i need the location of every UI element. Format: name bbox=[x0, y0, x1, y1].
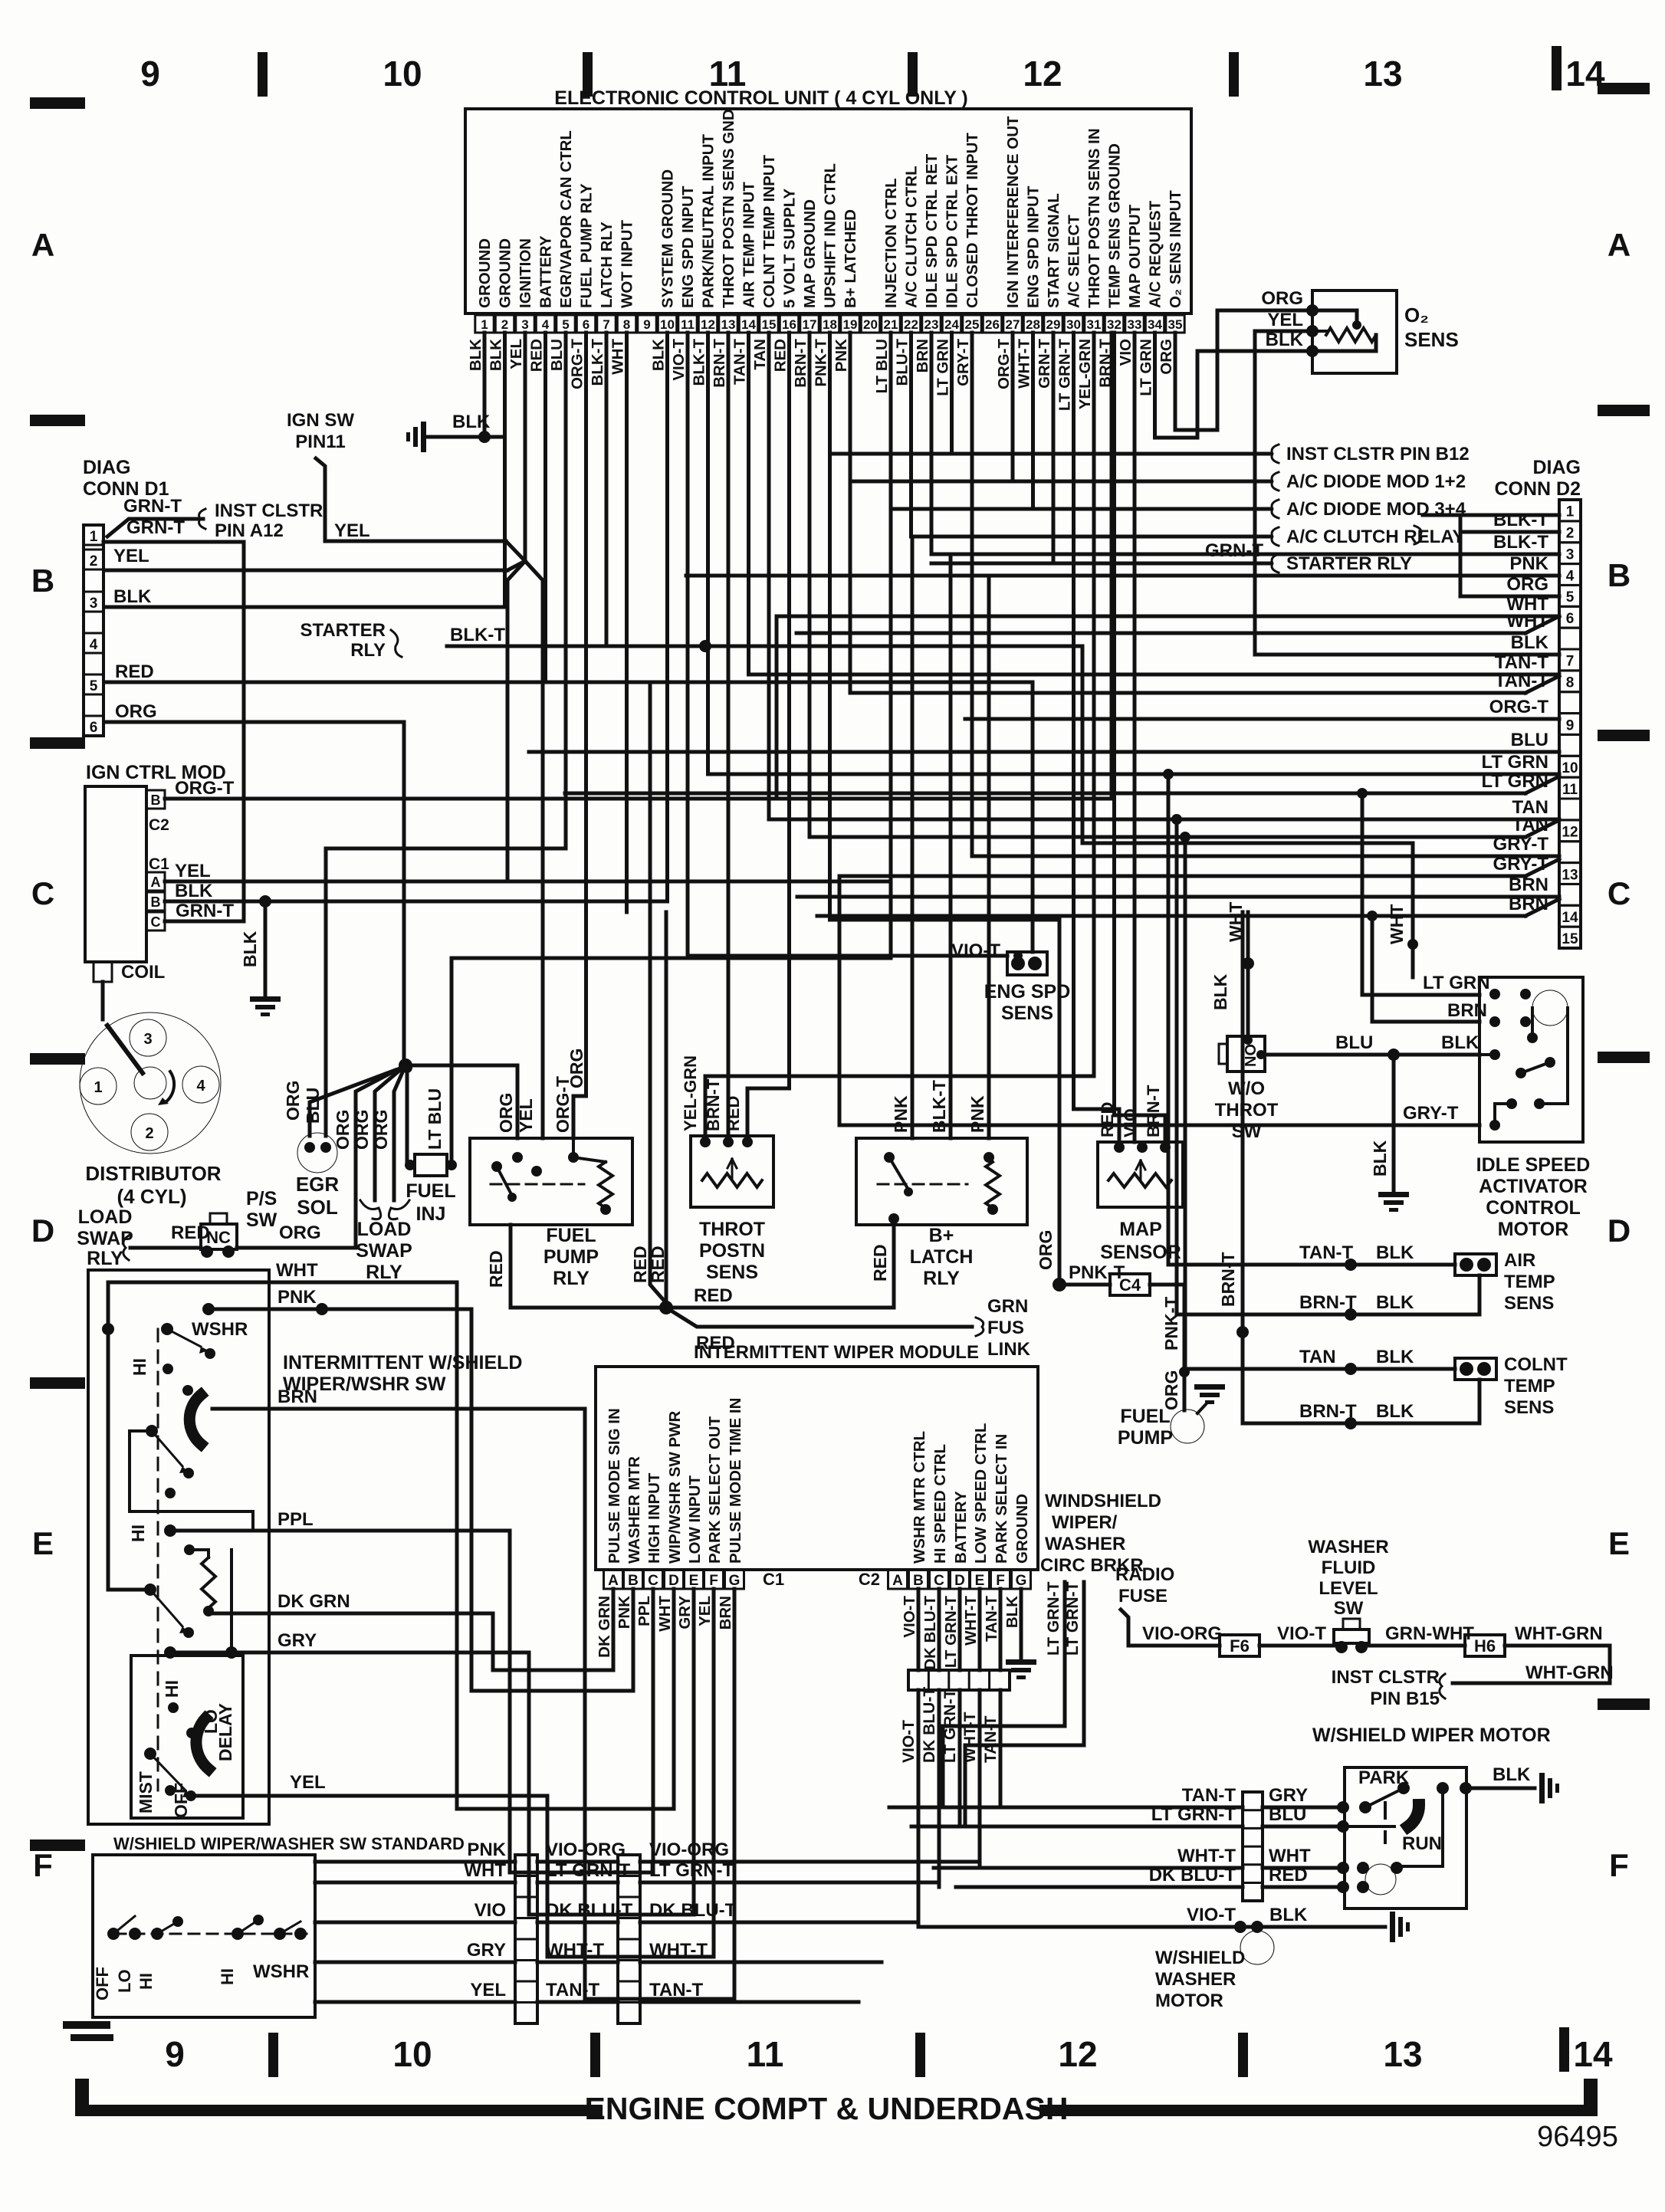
svg-text:27: 27 bbox=[1006, 317, 1020, 332]
svg-text:C: C bbox=[648, 1573, 658, 1589]
svg-text:STARTER RLY: STARTER RLY bbox=[1286, 553, 1412, 574]
svg-text:(4 CYL): (4 CYL) bbox=[117, 1185, 187, 1208]
svg-text:PIN B15: PIN B15 bbox=[1370, 1689, 1440, 1709]
svg-text:MOTOR: MOTOR bbox=[1155, 1990, 1223, 2011]
svg-text:BLK: BLK bbox=[1210, 973, 1230, 1010]
svg-text:LT GRN: LT GRN bbox=[1481, 752, 1548, 773]
svg-text:SENS: SENS bbox=[1504, 1397, 1554, 1418]
svg-text:31: 31 bbox=[1087, 317, 1102, 332]
svg-text:2: 2 bbox=[501, 317, 508, 332]
svg-text:4: 4 bbox=[542, 317, 550, 332]
svg-text:INST CLSTR PIN B12: INST CLSTR PIN B12 bbox=[1286, 444, 1470, 464]
svg-text:BLK: BLK bbox=[488, 339, 505, 371]
svg-text:IGNITION: IGNITION bbox=[517, 238, 534, 308]
svg-text:FUSE: FUSE bbox=[1118, 1586, 1167, 1606]
svg-text:O₂ SENS INPUT: O₂ SENS INPUT bbox=[1167, 190, 1184, 308]
svg-text:WHT: WHT bbox=[276, 1260, 318, 1281]
svg-text:LT BLU: LT BLU bbox=[425, 1088, 445, 1150]
svg-text:BLK: BLK bbox=[1376, 1292, 1414, 1313]
svg-text:WASHER MTR: WASHER MTR bbox=[626, 1456, 643, 1564]
svg-text:TAN-T: TAN-T bbox=[546, 1980, 600, 2000]
svg-text:3: 3 bbox=[1566, 546, 1575, 563]
svg-text:ELECTRONIC CONTROL UNIT (: ELECTRONIC CONTROL UNIT ( 4 CYL ONLY ) bbox=[554, 87, 967, 109]
svg-text:16: 16 bbox=[782, 317, 796, 332]
svg-text:ORG: ORG bbox=[1036, 1230, 1056, 1270]
svg-text:WHT: WHT bbox=[1387, 904, 1407, 944]
svg-text:TAN: TAN bbox=[751, 339, 769, 370]
svg-text:W/SHIELD WIPER MOTOR: W/SHIELD WIPER MOTOR bbox=[1312, 1725, 1551, 1746]
svg-text:TAN-T: TAN-T bbox=[731, 339, 749, 385]
svg-text:BRN: BRN bbox=[1509, 894, 1548, 914]
svg-text:33: 33 bbox=[1128, 317, 1142, 332]
svg-text:VIO: VIO bbox=[1117, 339, 1135, 366]
svg-text:YEL-GRN: YEL-GRN bbox=[1076, 339, 1094, 409]
svg-text:PPL: PPL bbox=[635, 1596, 653, 1626]
svg-text:PUMP: PUMP bbox=[544, 1246, 599, 1268]
svg-text:WHT-GRN: WHT-GRN bbox=[1525, 1662, 1614, 1683]
svg-text:BLK: BLK bbox=[113, 586, 152, 607]
svg-text:5: 5 bbox=[90, 678, 98, 694]
svg-text:RLY: RLY bbox=[553, 1268, 589, 1289]
svg-text:IGN INTERFERENCE OUT: IGN INTERFERENCE OUT bbox=[1004, 116, 1022, 308]
svg-text:PNK: PNK bbox=[891, 1095, 911, 1133]
svg-text:WHT-T: WHT-T bbox=[962, 1596, 980, 1646]
svg-text:19: 19 bbox=[843, 317, 858, 332]
svg-text:ORG: ORG bbox=[115, 701, 157, 722]
svg-text:WASHER: WASHER bbox=[1308, 1537, 1388, 1557]
svg-text:WHT: WHT bbox=[464, 1860, 506, 1881]
svg-text:BRN-T: BRN-T bbox=[1218, 1252, 1238, 1307]
svg-text:VIO-T: VIO-T bbox=[951, 940, 1000, 961]
svg-text:23: 23 bbox=[924, 317, 939, 332]
svg-text:28: 28 bbox=[1026, 317, 1040, 332]
svg-text:PIN A12: PIN A12 bbox=[215, 520, 284, 541]
svg-text:E: E bbox=[975, 1573, 985, 1589]
svg-text:GRN-T: GRN-T bbox=[123, 496, 182, 517]
svg-text:PPL: PPL bbox=[277, 1509, 314, 1530]
svg-text:ORG-T: ORG-T bbox=[569, 339, 586, 390]
svg-text:29: 29 bbox=[1046, 317, 1061, 332]
svg-text:PNK: PNK bbox=[967, 1095, 987, 1133]
svg-text:RLY: RLY bbox=[87, 1248, 123, 1269]
svg-text:IGN SW: IGN SW bbox=[287, 410, 354, 431]
svg-text:SW: SW bbox=[1334, 1598, 1364, 1619]
svg-text:ORG: ORG bbox=[1161, 1370, 1181, 1410]
svg-text:BLK: BLK bbox=[650, 339, 668, 371]
svg-text:EGR/VAPOR CAN CTRL: EGR/VAPOR CAN CTRL bbox=[557, 130, 575, 308]
svg-text:DISTRIBUTOR: DISTRIBUTOR bbox=[85, 1162, 221, 1185]
svg-text:THROT POSTN SENS GND: THROT POSTN SENS GND bbox=[720, 109, 737, 308]
svg-text:YEL: YEL bbox=[290, 1772, 326, 1793]
svg-text:C: C bbox=[31, 875, 54, 911]
svg-text:RLY: RLY bbox=[350, 640, 386, 661]
svg-text:96495: 96495 bbox=[1537, 2121, 1618, 2153]
svg-text:MAP GROUND: MAP GROUND bbox=[801, 199, 819, 308]
svg-text:LOW INPUT: LOW INPUT bbox=[686, 1475, 704, 1564]
svg-text:3: 3 bbox=[143, 1031, 152, 1048]
svg-text:WHT: WHT bbox=[609, 339, 627, 375]
svg-text:A/C SELECT: A/C SELECT bbox=[1066, 215, 1083, 308]
svg-text:IDLE SPEED: IDLE SPEED bbox=[1476, 1154, 1591, 1176]
svg-text:BRN: BRN bbox=[717, 1596, 734, 1629]
svg-text:17: 17 bbox=[803, 317, 817, 332]
svg-text:B: B bbox=[31, 563, 54, 599]
svg-text:21: 21 bbox=[884, 317, 898, 332]
svg-text:DIAG: DIAG bbox=[83, 457, 131, 478]
svg-text:2: 2 bbox=[145, 1125, 153, 1142]
svg-text:MAP: MAP bbox=[1119, 1219, 1162, 1240]
svg-text:GRN-T: GRN-T bbox=[1205, 540, 1263, 561]
svg-text:SENS: SENS bbox=[706, 1262, 758, 1283]
svg-text:GRN-T: GRN-T bbox=[176, 901, 234, 921]
svg-text:VIO-ORG: VIO-ORG bbox=[546, 1840, 626, 1860]
svg-text:STARTER: STARTER bbox=[300, 620, 386, 641]
svg-text:TAN: TAN bbox=[1299, 1347, 1336, 1367]
svg-text:VIO-T: VIO-T bbox=[1187, 1905, 1236, 1925]
svg-text:F: F bbox=[1609, 1847, 1629, 1883]
svg-text:BATTERY: BATTERY bbox=[952, 1491, 970, 1564]
svg-text:IDLE SPD CTRL RET: IDLE SPD CTRL RET bbox=[923, 153, 941, 308]
svg-text:BRN: BRN bbox=[277, 1387, 317, 1407]
svg-text:UPSHIFT IND CTRL: UPSHIFT IND CTRL bbox=[822, 163, 839, 308]
svg-text:TAN-T: TAN-T bbox=[982, 1715, 1000, 1763]
svg-text:4: 4 bbox=[196, 1078, 205, 1095]
svg-text:DK BLU-T: DK BLU-T bbox=[649, 1900, 737, 1921]
svg-text:11: 11 bbox=[681, 317, 695, 332]
svg-text:GRY-T: GRY-T bbox=[954, 339, 972, 386]
svg-text:1: 1 bbox=[1566, 504, 1575, 520]
svg-text:FLUID: FLUID bbox=[1322, 1557, 1376, 1578]
svg-text:D: D bbox=[954, 1573, 965, 1589]
svg-text:BLK: BLK bbox=[467, 339, 484, 371]
svg-text:RED: RED bbox=[772, 339, 790, 372]
svg-text:HI: HI bbox=[130, 1358, 149, 1376]
svg-text:WINDSHIELD: WINDSHIELD bbox=[1045, 1491, 1161, 1511]
svg-text:RED: RED bbox=[694, 1285, 733, 1306]
svg-text:CLOSED THROT INPUT: CLOSED THROT INPUT bbox=[964, 133, 981, 308]
svg-text:A: A bbox=[608, 1573, 619, 1589]
svg-text:RLY: RLY bbox=[366, 1262, 402, 1283]
svg-text:ENG SPD INPUT: ENG SPD INPUT bbox=[1025, 185, 1043, 308]
svg-text:FUEL: FUEL bbox=[1120, 1406, 1170, 1427]
svg-text:WSHR MTR CTRL: WSHR MTR CTRL bbox=[911, 1431, 928, 1564]
svg-text:PNK-T: PNK-T bbox=[813, 339, 830, 387]
svg-text:ENGINE COMPT & UNDERDASH: ENGINE COMPT & UNDERDASH bbox=[585, 2091, 1069, 2126]
svg-text:WHT-GRN: WHT-GRN bbox=[1515, 1623, 1603, 1644]
svg-text:ORG: ORG bbox=[1158, 339, 1175, 375]
svg-text:PUMP: PUMP bbox=[1118, 1427, 1173, 1449]
svg-text:SENS: SENS bbox=[1001, 1003, 1053, 1024]
svg-text:WIP/WSHR SW PWR: WIP/WSHR SW PWR bbox=[666, 1411, 684, 1564]
svg-text:ENG SPD: ENG SPD bbox=[984, 981, 1071, 1003]
svg-text:GRY-T: GRY-T bbox=[1493, 854, 1549, 875]
svg-text:VIO-ORG: VIO-ORG bbox=[649, 1840, 729, 1860]
svg-text:THROT POSTN SENS IN: THROT POSTN SENS IN bbox=[1085, 128, 1103, 308]
svg-text:ORG: ORG bbox=[279, 1223, 321, 1243]
svg-text:F: F bbox=[996, 1573, 1005, 1589]
svg-text:WSHR: WSHR bbox=[192, 1319, 248, 1340]
svg-text:LOW SPEED CTRL: LOW SPEED CTRL bbox=[972, 1423, 990, 1564]
svg-text:13: 13 bbox=[1383, 2034, 1422, 2074]
svg-text:30: 30 bbox=[1066, 317, 1081, 332]
svg-text:YEL: YEL bbox=[516, 1098, 536, 1133]
svg-text:ACTIVATOR: ACTIVATOR bbox=[1479, 1176, 1588, 1197]
svg-text:10: 10 bbox=[383, 54, 422, 94]
svg-text:B: B bbox=[1608, 557, 1631, 593]
svg-text:B: B bbox=[628, 1573, 639, 1589]
svg-text:ORG: ORG bbox=[1506, 574, 1548, 595]
svg-text:7: 7 bbox=[603, 317, 609, 332]
svg-text:E: E bbox=[32, 1525, 54, 1561]
svg-text:ORG-T: ORG-T bbox=[1489, 697, 1549, 717]
svg-text:A/C CLUTCH CTRL: A/C CLUTCH CTRL bbox=[903, 166, 921, 308]
svg-text:VIO-T: VIO-T bbox=[900, 1720, 918, 1763]
svg-text:PNK: PNK bbox=[832, 339, 850, 372]
svg-text:VIO-T: VIO-T bbox=[901, 1596, 918, 1638]
svg-text:COLNT TEMP INPUT: COLNT TEMP INPUT bbox=[760, 154, 778, 308]
svg-text:W/SHIELD: W/SHIELD bbox=[1155, 1948, 1245, 1968]
svg-text:20: 20 bbox=[863, 317, 878, 332]
svg-text:PULSE MODE SIG IN: PULSE MODE SIG IN bbox=[606, 1408, 623, 1564]
svg-text:FUEL: FUEL bbox=[546, 1225, 596, 1246]
svg-text:11: 11 bbox=[1562, 782, 1578, 798]
svg-text:SOL: SOL bbox=[297, 1196, 338, 1219]
svg-text:A: A bbox=[1608, 227, 1631, 263]
svg-text:1: 1 bbox=[90, 529, 98, 545]
svg-text:HI SPEED CTRL: HI SPEED CTRL bbox=[931, 1444, 949, 1564]
svg-text:HI: HI bbox=[136, 1973, 156, 1990]
svg-text:GRN-T: GRN-T bbox=[126, 517, 185, 538]
svg-text:RADIO: RADIO bbox=[1115, 1564, 1174, 1585]
svg-text:DK GRN: DK GRN bbox=[277, 1591, 350, 1612]
svg-text:VIO-T: VIO-T bbox=[1277, 1623, 1326, 1644]
svg-text:SENS: SENS bbox=[1504, 1293, 1554, 1314]
svg-text:C1: C1 bbox=[763, 1570, 784, 1589]
svg-text:YEL: YEL bbox=[1267, 310, 1303, 330]
svg-text:LEVEL: LEVEL bbox=[1319, 1578, 1378, 1599]
svg-text:SWAP: SWAP bbox=[356, 1240, 412, 1262]
svg-text:RED: RED bbox=[115, 661, 154, 682]
svg-text:5: 5 bbox=[562, 317, 569, 332]
svg-text:LT GRN: LT GRN bbox=[1481, 771, 1548, 792]
svg-text:ENG SPD INPUT: ENG SPD INPUT bbox=[679, 185, 697, 308]
svg-text:HI: HI bbox=[162, 1680, 182, 1698]
svg-text:B: B bbox=[151, 894, 161, 910]
svg-text:25: 25 bbox=[965, 317, 980, 332]
svg-text:C: C bbox=[934, 1573, 944, 1589]
svg-text:WSHR: WSHR bbox=[253, 1961, 309, 1982]
svg-text:LT GRN-T: LT GRN-T bbox=[942, 1596, 960, 1669]
svg-text:BATTERY: BATTERY bbox=[537, 235, 555, 308]
svg-text:BLK-T: BLK-T bbox=[1493, 532, 1548, 553]
svg-text:TEMP: TEMP bbox=[1504, 1272, 1555, 1292]
svg-text:6: 6 bbox=[1566, 611, 1575, 627]
svg-text:BLK-T: BLK-T bbox=[1493, 510, 1548, 530]
svg-text:WHT: WHT bbox=[1506, 611, 1548, 632]
svg-text:26: 26 bbox=[985, 317, 1000, 332]
svg-text:BLK: BLK bbox=[175, 881, 213, 901]
svg-text:ORG: ORG bbox=[1261, 288, 1303, 309]
svg-text:D: D bbox=[31, 1213, 54, 1249]
svg-text:C1: C1 bbox=[149, 855, 169, 873]
svg-text:LT GRN-T: LT GRN-T bbox=[1064, 1581, 1082, 1656]
svg-text:YEL: YEL bbox=[507, 339, 525, 369]
svg-text:A/C CLUTCH RELAY: A/C CLUTCH RELAY bbox=[1286, 527, 1464, 547]
svg-text:22: 22 bbox=[904, 317, 918, 332]
svg-text:12: 12 bbox=[1562, 825, 1578, 841]
svg-text:RED: RED bbox=[870, 1244, 890, 1282]
svg-text:LT GRN: LT GRN bbox=[934, 339, 952, 396]
svg-text:GRN-T: GRN-T bbox=[1036, 339, 1053, 389]
svg-text:BLK: BLK bbox=[1370, 1140, 1390, 1177]
svg-text:MAP OUTPUT: MAP OUTPUT bbox=[1126, 204, 1144, 308]
svg-text:BLK: BLK bbox=[452, 412, 491, 432]
svg-text:WHT-T: WHT-T bbox=[1016, 339, 1033, 389]
svg-text:DELAY: DELAY bbox=[215, 1703, 235, 1761]
svg-text:WASHER: WASHER bbox=[1155, 1969, 1236, 1990]
svg-text:9: 9 bbox=[643, 317, 650, 332]
svg-text:CONN D2: CONN D2 bbox=[1494, 478, 1581, 500]
svg-text:BLU: BLU bbox=[1269, 1804, 1306, 1825]
svg-text:INTERMITTENT W/SHIELD: INTERMITTENT W/SHIELD bbox=[283, 1352, 522, 1373]
svg-text:10: 10 bbox=[1562, 760, 1578, 776]
svg-text:ORG: ORG bbox=[371, 1110, 391, 1150]
svg-text:F: F bbox=[33, 1847, 53, 1883]
svg-text:TAN-T: TAN-T bbox=[983, 1596, 1000, 1642]
svg-text:BLK-T: BLK-T bbox=[450, 625, 505, 645]
svg-text:TEMP SENS GROUND: TEMP SENS GROUND bbox=[1106, 143, 1124, 308]
svg-text:ORG-T: ORG-T bbox=[553, 1076, 573, 1133]
svg-text:PNK: PNK bbox=[467, 1840, 506, 1860]
svg-text:18: 18 bbox=[823, 317, 837, 332]
svg-text:HIGH INPUT: HIGH INPUT bbox=[645, 1472, 663, 1564]
svg-text:INTERMITTENT WIPER MODULE: INTERMITTENT WIPER MODULE bbox=[694, 1342, 979, 1363]
svg-text:RED: RED bbox=[1098, 1102, 1117, 1137]
svg-text:G: G bbox=[1016, 1573, 1027, 1589]
svg-text:12: 12 bbox=[1058, 2034, 1097, 2074]
svg-text:BLU: BLU bbox=[303, 1088, 323, 1124]
svg-text:INJ: INJ bbox=[416, 1203, 446, 1225]
svg-text:1: 1 bbox=[94, 1079, 102, 1096]
svg-text:START SIGNAL: START SIGNAL bbox=[1045, 193, 1062, 308]
svg-text:15: 15 bbox=[762, 317, 777, 332]
svg-text:1: 1 bbox=[481, 317, 488, 332]
svg-text:O₂: O₂ bbox=[1404, 304, 1429, 327]
svg-text:BLK: BLK bbox=[1511, 632, 1549, 653]
svg-text:C: C bbox=[1608, 875, 1631, 911]
svg-text:WHT-T: WHT-T bbox=[546, 1940, 604, 1961]
svg-text:BRN: BRN bbox=[1509, 875, 1548, 895]
svg-text:12: 12 bbox=[1023, 54, 1062, 94]
svg-text:MIST: MIST bbox=[136, 1771, 156, 1813]
svg-text:YEL: YEL bbox=[696, 1596, 714, 1626]
svg-text:PARK SELECT OUT: PARK SELECT OUT bbox=[706, 1416, 724, 1564]
svg-text:5: 5 bbox=[1566, 589, 1575, 606]
svg-text:OFF: OFF bbox=[171, 1783, 191, 1818]
svg-text:PIN11: PIN11 bbox=[295, 432, 345, 452]
svg-text:6: 6 bbox=[90, 720, 98, 736]
svg-text:VIO-T: VIO-T bbox=[670, 339, 688, 381]
svg-text:34: 34 bbox=[1148, 317, 1162, 332]
svg-text:LT GRN-T: LT GRN-T bbox=[1045, 1581, 1062, 1656]
svg-text:WASHER: WASHER bbox=[1045, 1534, 1125, 1554]
svg-text:LATCH: LATCH bbox=[910, 1246, 974, 1268]
svg-text:GRN: GRN bbox=[987, 1296, 1028, 1317]
svg-text:PARK/NEUTRAL INPUT: PARK/NEUTRAL INPUT bbox=[700, 134, 718, 308]
svg-text:12: 12 bbox=[701, 317, 715, 332]
svg-text:11: 11 bbox=[747, 2034, 784, 2074]
svg-text:LATCH RLY: LATCH RLY bbox=[598, 222, 616, 308]
svg-text:PARK SELECT IN: PARK SELECT IN bbox=[993, 1434, 1010, 1564]
svg-text:DIAG: DIAG bbox=[1533, 457, 1581, 478]
svg-text:IDLE SPD CTRL EXT: IDLE SPD CTRL EXT bbox=[944, 154, 961, 308]
svg-text:ORG: ORG bbox=[333, 1110, 353, 1150]
svg-text:ORG: ORG bbox=[496, 1093, 516, 1133]
svg-text:WHT-T: WHT-T bbox=[1177, 1846, 1236, 1866]
svg-text:BLU: BLU bbox=[548, 339, 566, 371]
svg-text:PNK: PNK bbox=[277, 1287, 317, 1308]
svg-text:YEL: YEL bbox=[113, 546, 149, 566]
svg-text:VIO: VIO bbox=[475, 1900, 506, 1921]
svg-text:BLK: BLK bbox=[1441, 1032, 1479, 1053]
svg-text:HI: HI bbox=[128, 1524, 148, 1542]
svg-text:WIPER/: WIPER/ bbox=[1052, 1512, 1118, 1533]
svg-text:BRN-T: BRN-T bbox=[711, 339, 728, 388]
svg-text:6: 6 bbox=[583, 317, 589, 332]
svg-text:15: 15 bbox=[1562, 931, 1578, 947]
svg-text:TAN: TAN bbox=[1512, 815, 1548, 835]
svg-text:FUEL PUMP RLY: FUEL PUMP RLY bbox=[578, 183, 596, 308]
svg-text:INST CLSTR: INST CLSTR bbox=[215, 500, 323, 521]
svg-text:BLK: BLK bbox=[1376, 1347, 1414, 1367]
svg-text:C4: C4 bbox=[1119, 1275, 1141, 1295]
svg-text:VIO: VIO bbox=[1121, 1108, 1140, 1137]
svg-text:GRY: GRY bbox=[1269, 1785, 1308, 1806]
svg-text:WOT INPUT: WOT INPUT bbox=[619, 220, 636, 308]
svg-text:14: 14 bbox=[1573, 2034, 1613, 2074]
svg-text:4: 4 bbox=[90, 637, 98, 653]
svg-text:GRN-WHT: GRN-WHT bbox=[1385, 1623, 1474, 1644]
svg-text:RED: RED bbox=[171, 1223, 210, 1243]
svg-text:ORG-T: ORG-T bbox=[175, 778, 235, 799]
svg-text:D: D bbox=[1608, 1213, 1631, 1249]
svg-text:BLU: BLU bbox=[1335, 1032, 1373, 1053]
svg-text:GRY: GRY bbox=[676, 1596, 694, 1629]
svg-text:DK BLU-T: DK BLU-T bbox=[1149, 1865, 1236, 1885]
svg-text:YEL: YEL bbox=[175, 861, 211, 881]
svg-text:E: E bbox=[689, 1573, 699, 1589]
svg-text:COLNT: COLNT bbox=[1504, 1354, 1568, 1375]
svg-text:GRY: GRY bbox=[277, 1630, 317, 1651]
svg-text:E: E bbox=[1608, 1525, 1630, 1561]
svg-text:WHT-T: WHT-T bbox=[649, 1940, 708, 1961]
svg-text:INJECTION CTRL: INJECTION CTRL bbox=[882, 178, 900, 308]
svg-text:32: 32 bbox=[1107, 317, 1121, 332]
svg-text:LOAD: LOAD bbox=[357, 1219, 412, 1240]
svg-text:9: 9 bbox=[1566, 717, 1575, 734]
svg-text:BLK-T: BLK-T bbox=[691, 339, 708, 386]
svg-text:TAN-T: TAN-T bbox=[649, 1980, 704, 2000]
svg-text:BRN-T: BRN-T bbox=[704, 1078, 723, 1131]
svg-text:8: 8 bbox=[1566, 675, 1575, 691]
svg-text:HI: HI bbox=[218, 1968, 237, 1985]
svg-text:2: 2 bbox=[1566, 526, 1575, 542]
svg-text:3: 3 bbox=[90, 596, 98, 612]
svg-text:RED: RED bbox=[486, 1250, 506, 1288]
svg-text:BRN: BRN bbox=[914, 339, 931, 372]
svg-text:3: 3 bbox=[521, 317, 528, 332]
svg-text:PNK: PNK bbox=[1509, 553, 1548, 574]
